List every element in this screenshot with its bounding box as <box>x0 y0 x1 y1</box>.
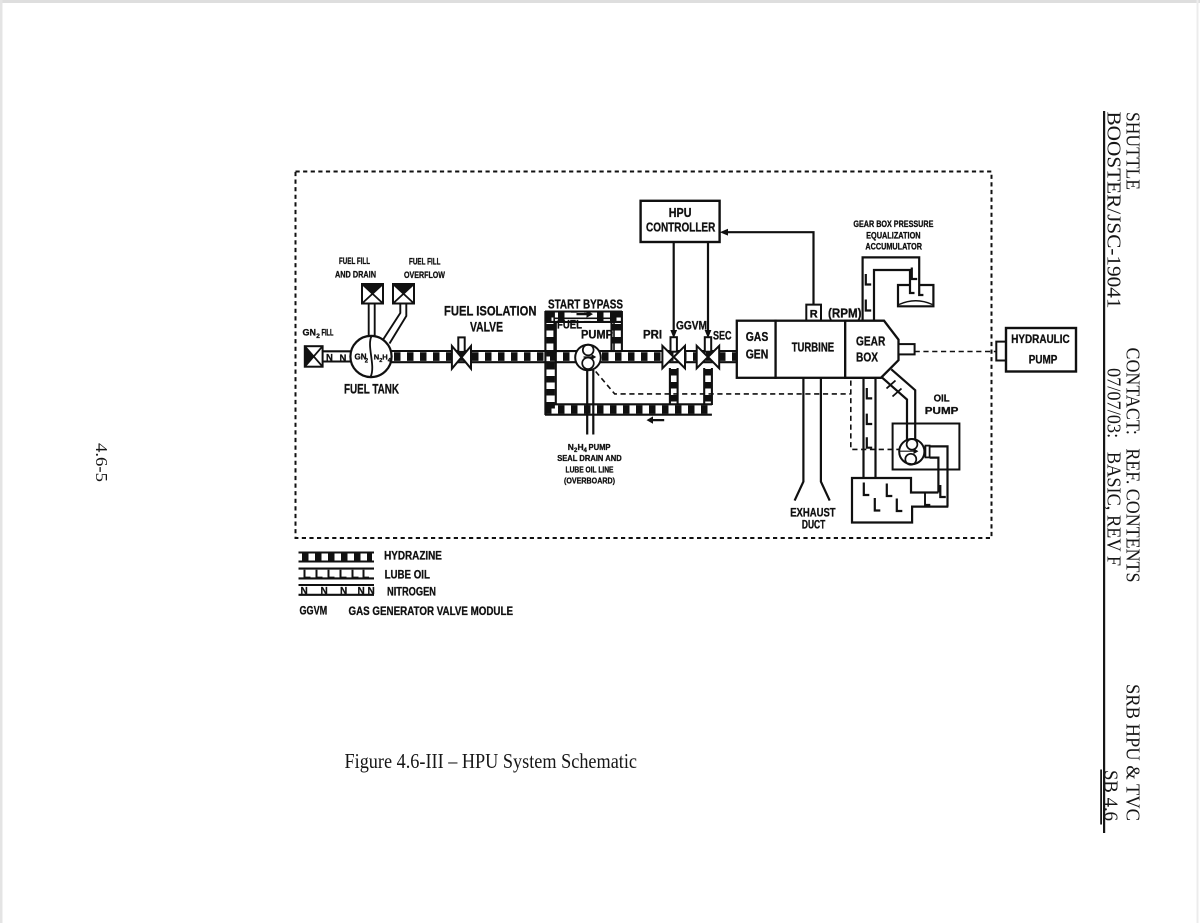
svg-text:OIL: OIL <box>934 392 951 404</box>
legend hydrazine pipe <box>299 553 375 562</box>
svg-text:TURBINE: TURBINE <box>792 340 834 354</box>
svg-text:07/07/03: BASIC, REV F: 07/07/03: BASIC, REV F <box>1103 368 1125 566</box>
svg-text:AND DRAIN: AND DRAIN <box>335 269 376 280</box>
PRI valve stem <box>671 337 677 352</box>
svg-text:BOOSTER/JSC-19041: BOOSTER/JSC-19041 <box>1103 112 1125 309</box>
speed sense dashed line from fuel pump <box>596 372 901 450</box>
reservoir inner tick <box>925 493 930 505</box>
svg-text:ACCUMULATOR: ACCUMULATOR <box>865 242 922 252</box>
start bypass loop right pipe <box>612 311 622 351</box>
ticks on diagonal pipe <box>887 381 902 397</box>
SEC valve <box>697 346 720 369</box>
N2H4 pump seal drain pipe <box>587 370 593 435</box>
legend lube oil pipe <box>299 569 375 579</box>
svg-text:HYDRAULIC: HYDRAULIC <box>1011 334 1069 346</box>
svg-text:HPU: HPU <box>669 206 692 220</box>
fuel isolation valve <box>452 346 471 369</box>
svg-text:GAS: GAS <box>746 330 769 344</box>
fuel fill and drain pipe <box>369 304 375 339</box>
svg-text:Figure 4.6-III – HPU System Sc: Figure 4.6-III – HPU System Schematic <box>345 749 638 773</box>
arrow in bypass top pipe <box>566 313 597 321</box>
reservoir L marks <box>864 483 903 512</box>
fuel pump <box>575 345 601 371</box>
svg-text:GEN: GEN <box>746 348 769 362</box>
lube diagonal pipe gearbox to oil pump <box>882 369 915 439</box>
lube L marks on accumulator pipe <box>866 268 917 311</box>
svg-text:N: N <box>568 442 574 452</box>
svg-text:LUBE OIL: LUBE OIL <box>385 568 430 582</box>
svg-text:PUMP: PUMP <box>1029 354 1058 366</box>
start bypass loop left pipe <box>545 311 555 415</box>
shaft dashed line to hydraulic pump <box>915 351 997 353</box>
svg-text:GN: GN <box>303 328 317 338</box>
svg-text:CONTROLLER: CONTROLLER <box>646 220 715 234</box>
svg-text:N: N <box>321 586 328 597</box>
wire RPM sensor to HPU <box>727 232 814 305</box>
svg-text:N: N <box>301 586 308 597</box>
svg-text:N: N <box>368 586 375 597</box>
svg-text:GEAR: GEAR <box>856 334 885 348</box>
gas gen box <box>737 321 776 378</box>
page top border <box>0 0 1200 3</box>
svg-text:EQUALIZATION: EQUALIZATION <box>866 230 921 240</box>
svg-text:SEC: SEC <box>713 330 732 342</box>
HPU controller box <box>641 201 720 242</box>
accumulator meniscus <box>899 301 932 305</box>
fuel tank <box>350 336 391 377</box>
oil pump outlet bracket <box>925 446 929 458</box>
legend nitrogen pipe <box>299 585 375 597</box>
hydraulic pump box <box>1006 328 1076 372</box>
sidebar header rule <box>1103 111 1105 833</box>
PRI valve <box>662 346 685 369</box>
lube pipe gearbox down to reservoir <box>864 378 876 478</box>
svg-text:N: N <box>326 353 333 364</box>
svg-text:N: N <box>340 586 347 597</box>
svg-text:FILL: FILL <box>322 328 334 338</box>
sidebar SB 4.6 underline <box>1100 770 1102 825</box>
svg-text:FUEL TANK: FUEL TANK <box>344 381 399 397</box>
svg-text:FUEL FILL: FUEL FILL <box>409 256 441 267</box>
RPM sensor box <box>806 305 821 321</box>
start bypass loop top pipe <box>545 312 622 322</box>
lube pipe gearbox to accumulator <box>863 257 924 320</box>
schematic dashed border <box>296 172 992 539</box>
exhaust duct <box>795 378 830 501</box>
fuel isolation valve stem <box>458 337 464 352</box>
lube reservoir <box>852 478 948 523</box>
svg-text:GEAR BOX PRESSURE: GEAR BOX PRESSURE <box>853 219 933 229</box>
turbine box <box>776 321 846 378</box>
svg-text:BOX: BOX <box>856 350 879 364</box>
oil pump <box>899 439 924 465</box>
svg-text:EXHAUST: EXHAUST <box>790 508 835 520</box>
svg-text:PRI: PRI <box>643 330 662 342</box>
svg-text:(OVERBOARD): (OVERBOARD) <box>564 476 615 486</box>
fuel pump box <box>554 318 614 351</box>
fuel fill overflow pipe <box>383 304 407 344</box>
page left border <box>0 0 3 923</box>
svg-text:4.6-5: 4.6-5 <box>92 443 111 482</box>
svg-text:GGVM: GGVM <box>676 320 707 332</box>
svg-text:FUEL FILL: FUEL FILL <box>339 256 370 267</box>
svg-text:SEAL DRAIN AND: SEAL DRAIN AND <box>557 453 622 463</box>
oil pump box <box>893 424 960 470</box>
svg-text:FUEL: FUEL <box>557 320 582 332</box>
L mark on oil pipe <box>940 485 946 497</box>
gear box <box>845 321 898 378</box>
svg-text:PUMP: PUMP <box>581 330 613 342</box>
svg-text:2: 2 <box>316 333 320 340</box>
svg-text:HYDRAZINE: HYDRAZINE <box>384 548 442 562</box>
main hydrazine pipe tank-to-gasgen <box>391 351 737 362</box>
wire HPU to SEC valve <box>707 242 709 331</box>
svg-text:OVERFLOW: OVERFLOW <box>404 270 445 281</box>
svg-text:N: N <box>340 353 347 364</box>
SEC valve stem <box>705 337 711 352</box>
fuel fill overflow port <box>393 284 414 304</box>
gear box output shaft <box>899 344 915 354</box>
accumulator cup <box>898 285 933 306</box>
svg-text:N: N <box>358 586 365 597</box>
hydraulic pump tab <box>996 342 1006 361</box>
svg-text:START BYPASS: START BYPASS <box>548 298 623 312</box>
svg-text:SRB HPU & TVC: SRB HPU & TVC <box>1122 684 1144 821</box>
svg-text:NITROGEN: NITROGEN <box>387 584 436 598</box>
svg-text:GAS GENERATOR VALVE MODULE: GAS GENERATOR VALVE MODULE <box>349 604 514 618</box>
page right border <box>1197 0 1199 923</box>
svg-text:SB 4.6: SB 4.6 <box>1100 770 1122 821</box>
GN2 fill port <box>305 346 323 367</box>
lube L marks on down pipe <box>867 388 872 448</box>
svg-text:(RPM): (RPM) <box>828 307 862 321</box>
svg-text:PUMP: PUMP <box>925 405 959 417</box>
SEC valve pipe down <box>704 368 712 405</box>
svg-text:R: R <box>810 309 818 321</box>
start bypass loop bottom pipe <box>545 404 712 414</box>
svg-text:DUCT: DUCT <box>802 520 825 532</box>
oil pipe pump to reservoir <box>930 446 948 506</box>
svg-text:PUMP: PUMP <box>589 442 611 452</box>
svg-text:VALVE: VALVE <box>470 319 503 335</box>
svg-text:FUEL ISOLATION: FUEL ISOLATION <box>444 303 537 319</box>
svg-text:H: H <box>382 353 387 362</box>
PRI valve pipe down <box>670 368 678 405</box>
nitrogen pipe GN2 fill to tank <box>323 351 352 364</box>
arrow under bypass bottom pipe <box>647 416 665 423</box>
svg-text:GGVM: GGVM <box>300 603 328 617</box>
fuel fill and drain port <box>362 284 383 304</box>
svg-text:LUBE OIL LINE: LUBE OIL LINE <box>566 464 614 474</box>
wire HPU to PRI valve <box>673 242 675 331</box>
